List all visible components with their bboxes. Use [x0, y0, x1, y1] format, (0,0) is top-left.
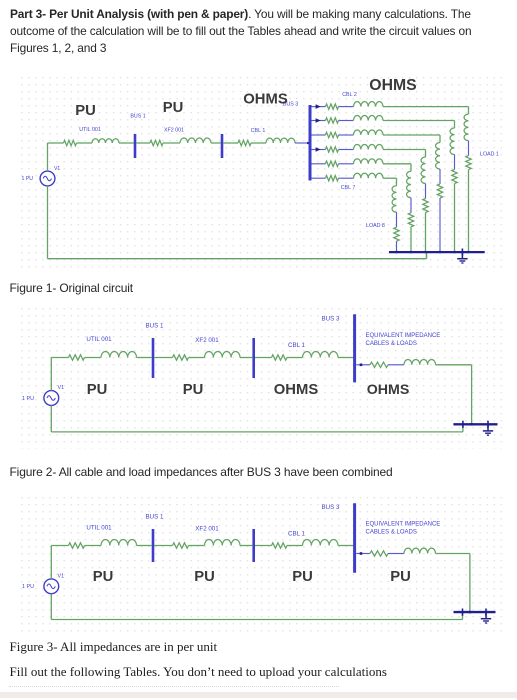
- figure 1 junction on neutral bar: [439, 251, 441, 253]
- figure 1 wire source to main line: [47, 143, 49, 171]
- figure 1 load resistor branch 6: [394, 227, 399, 241]
- figure 2 wire equivalent impedance to drop: [436, 364, 472, 366]
- svg-text:V1: V1: [54, 166, 60, 172]
- figure 1 inductor CBL 7: [354, 173, 384, 178]
- figure 1 junction on neutral bar: [453, 251, 455, 253]
- figure 1 wire BUS 3 to CBL 7: [312, 177, 326, 179]
- figure 3 resistor CBL 1: [272, 543, 287, 548]
- figure 3 wire drop to neutral bar: [469, 554, 471, 613]
- figure 1 junction on neutral bar: [467, 251, 469, 253]
- figure 1 wire: [223, 142, 238, 144]
- svg-text:EQUIVALENT IMPEDANCE: EQUIVALENT IMPEDANCE: [366, 333, 441, 339]
- figure 3 ground: [481, 609, 491, 624]
- figure 1 inductor XF2 001: [180, 138, 211, 143]
- figure 1 wire: [136, 142, 150, 144]
- figure 2 wire: [240, 357, 252, 359]
- figure 1 load inductor branch 1: [464, 114, 468, 140]
- figure 3 bus BUS 3: [353, 503, 356, 573]
- svg-text:PU: PU: [87, 382, 108, 398]
- figure 1 resistor CBL 6: [326, 161, 339, 166]
- figure 1 load resistor branch 2: [452, 170, 457, 184]
- figure 1 wire CBL 3 horizontal run: [383, 120, 455, 122]
- figure 2 return riser: [462, 424, 464, 432]
- svg-text:UTIL 001: UTIL 001: [86, 525, 112, 532]
- figure 1 bus BUS 1: [134, 134, 137, 158]
- figure 2 inductor XF2 001: [205, 352, 241, 358]
- figure 1 bottom return wire: [48, 258, 427, 260]
- figure 3 wire: [137, 545, 152, 547]
- figure 3 wire: [255, 545, 272, 547]
- figure 1 wire: [251, 142, 266, 144]
- figure 3 inductor equivalent impedance: [404, 548, 436, 553]
- svg-text:UTIL 001: UTIL 001: [86, 336, 112, 343]
- figure 1 bus BUS 2: [221, 134, 224, 158]
- svg-text:CBL 1: CBL 1: [288, 342, 306, 349]
- svg-text:OHMS: OHMS: [369, 77, 416, 94]
- figure 1 wire BUS 3 to CBL 4: [312, 134, 326, 136]
- svg-text:PU: PU: [194, 569, 215, 585]
- figure 2 voltage source V1: [44, 391, 59, 406]
- svg-text:PU: PU: [93, 569, 114, 585]
- svg-text:1 PU: 1 PU: [22, 396, 34, 402]
- svg-text:1 PU: 1 PU: [22, 176, 34, 182]
- figure 1 resistor CBL 1: [238, 140, 251, 145]
- figure 1 wire to neutral bar: [454, 184, 456, 252]
- figure 2 wire main segment: [51, 357, 68, 359]
- figure 1 wire CBL 6 bend down: [410, 164, 412, 172]
- svg-text:1 PU: 1 PU: [22, 584, 34, 590]
- figure 2 inductor CBL 1: [303, 352, 339, 358]
- svg-text:OHMS: OHMS: [367, 382, 410, 398]
- figure 2 wire: [287, 357, 303, 359]
- figure 1 load inductor branch 6: [392, 186, 396, 212]
- svg-text:V1: V1: [58, 385, 65, 391]
- figure 1 inductor CBL 1: [266, 138, 295, 143]
- figure 1 wire: [339, 177, 354, 179]
- figure 1 inductor CBL 6: [354, 159, 384, 164]
- figure 1 wire to neutral bar: [468, 170, 470, 252]
- svg-text:PU: PU: [390, 569, 411, 585]
- svg-text:BUS 1: BUS 1: [146, 514, 164, 521]
- figure 1 bus BUS 3: [309, 105, 312, 181]
- figure 1 inductor CBL 5: [354, 145, 384, 150]
- figure 1 wire BUS 3 to CBL 3: [312, 120, 326, 122]
- svg-text:CBL 1: CBL 1: [251, 128, 266, 134]
- svg-text:LOAD 1: LOAD 1: [480, 152, 499, 158]
- figure 3 wire source down: [50, 594, 52, 620]
- figure 3 wire: [362, 553, 370, 555]
- figure 2 bus BUS 3: [353, 314, 356, 382]
- figure 1 load inductor branch 2: [450, 128, 454, 154]
- figure 3 wire main segment: [51, 545, 68, 547]
- svg-text:XF2 001: XF2 001: [195, 337, 219, 344]
- figure 1 resistor CBL 3: [326, 118, 339, 123]
- figure 1 wire to neutral bar: [439, 198, 441, 251]
- figure 1 junction on neutral bar: [395, 251, 397, 253]
- figure 3 neutral bar: [454, 611, 496, 613]
- svg-text:OHMS: OHMS: [274, 382, 319, 398]
- figure 2 wire source down: [50, 405, 52, 432]
- figure 1 wire: [339, 106, 354, 108]
- figure 1 load resistor branch 3: [437, 184, 442, 198]
- figure 2 resistor CBL 1: [272, 355, 287, 360]
- figure 2 wire: [255, 357, 272, 359]
- figure 1 load resistor branch 5: [408, 213, 413, 227]
- figure 3 junction after BUS 3: [356, 553, 362, 555]
- figure 2 ground: [483, 421, 493, 436]
- figure 1 load inductor branch 3: [436, 143, 440, 169]
- figure 1 wire CBL 3 bend down: [454, 121, 456, 129]
- figure 1 wire: [339, 149, 354, 151]
- figure 1 wire main line segment A: [48, 142, 64, 144]
- figure 1 return riser to neutral bar: [426, 252, 428, 259]
- figure 1 wire CBL 2 bend down: [468, 107, 470, 115]
- figure 3 inductor UTIL 001: [101, 540, 137, 546]
- svg-text:LOAD 8: LOAD 8: [366, 223, 385, 229]
- figure 2 junction after BUS 3: [356, 364, 362, 366]
- figure 1 wire CBL 6 horizontal run: [383, 163, 411, 165]
- figure 1 wire CBL 7 horizontal run: [383, 177, 397, 179]
- figure 1 neutral bar: [389, 251, 485, 253]
- svg-text:PU: PU: [292, 569, 313, 585]
- svg-text:BUS 1: BUS 1: [130, 114, 145, 120]
- figure 3 resistor XF2 001: [173, 543, 189, 548]
- figure 1 junction on neutral bar: [410, 251, 412, 253]
- figure 3 wire equivalent impedance to drop: [436, 553, 470, 555]
- figure 1 wire CBL 5 horizontal run: [383, 149, 426, 151]
- figure 2 inductor equivalent impedance: [404, 359, 436, 364]
- figure 3 wire: [85, 545, 102, 547]
- svg-text:PU: PU: [163, 100, 184, 116]
- figure 1 load resistor branch 4: [423, 199, 428, 213]
- figure 1 junction arrow CBL 3: [316, 118, 321, 123]
- figure 1 wire: [396, 212, 398, 227]
- figure 1 wire source down: [47, 186, 49, 259]
- figure 1 inductor CBL 4: [354, 130, 384, 135]
- figure 1 load inductor branch 5: [407, 171, 411, 197]
- figure 3 wire: [189, 545, 205, 547]
- figure 1 wire CBL 4 bend down: [439, 135, 441, 143]
- figure 2 wire: [137, 357, 152, 359]
- svg-text:XF2 001: XF2 001: [164, 128, 184, 134]
- svg-text:BUS 1: BUS 1: [146, 323, 164, 330]
- svg-text:PU: PU: [75, 103, 96, 119]
- figure 1 resistor CBL 2: [326, 104, 339, 109]
- figure 1 junction at BUS 3: [307, 142, 309, 144]
- figure 2 junction drop: [470, 423, 473, 426]
- figure 1 wire: [119, 142, 134, 144]
- svg-text:BUS 3: BUS 3: [322, 504, 340, 511]
- figure 1 load resistor branch 1: [466, 156, 471, 170]
- figure 3 neutral bar tick left: [462, 609, 464, 616]
- figure 3 wire: [154, 545, 172, 547]
- figure 3 wire: [240, 545, 252, 547]
- figure 2 neutral bar: [453, 423, 497, 425]
- figure 1 wire BUS 3 to CBL 6: [312, 163, 326, 165]
- figure 1 resistor XF2 001: [150, 140, 163, 145]
- figure 1 wire: [339, 134, 354, 136]
- svg-text:OHMS: OHMS: [243, 92, 288, 108]
- figure 1 junction arrow CBL 2: [316, 104, 321, 109]
- figure 2 wire to BUS 3: [338, 357, 353, 359]
- figure 1 voltage source V1: [40, 171, 55, 186]
- figure 1 load inductor branch 4: [421, 157, 425, 183]
- figure 3 wire source to main: [50, 546, 52, 579]
- figure 2 wire: [362, 364, 370, 366]
- figure 1 resistor CBL 5: [326, 147, 339, 152]
- figure 2 wire drop to neutral bar: [471, 365, 473, 425]
- figure 1 inductor UTIL 001: [92, 139, 119, 143]
- figure 1 wire: [77, 142, 93, 144]
- figure 1 wire: [339, 163, 354, 165]
- figure 3 wire: [287, 545, 303, 547]
- figure 2 resistor XF2 001: [173, 355, 189, 360]
- svg-text:PU: PU: [183, 382, 204, 398]
- figure 1 wire: [439, 169, 441, 184]
- figure 1 wire CBL 4 horizontal run: [383, 134, 440, 136]
- svg-text:XF2 001: XF2 001: [195, 526, 219, 533]
- figure 3 voltage source V1: [44, 579, 59, 594]
- figure 3 bus BUS 1: [152, 529, 155, 562]
- figure 2 bus BUS 2: [252, 338, 255, 378]
- figure 1 wire CBL 5 bend down: [425, 150, 427, 158]
- figure 1 resistor CBL 4: [326, 132, 339, 137]
- figure 3 resistor UTIL 001: [69, 543, 85, 548]
- figure 1 wire: [468, 141, 470, 156]
- svg-text:CABLES & LOADS: CABLES & LOADS: [366, 530, 417, 536]
- figure 1 wire to neutral bar: [410, 227, 412, 251]
- figure 3 bottom return wire: [51, 619, 462, 621]
- figure 2 resistor equivalent impedance: [370, 362, 388, 367]
- figure 1 inductor CBL 2: [354, 102, 384, 107]
- figure 1 wire: [211, 142, 221, 144]
- svg-text:CBL 1: CBL 1: [288, 531, 306, 538]
- svg-text:CABLES & LOADS: CABLES & LOADS: [366, 341, 417, 347]
- figure 2 neutral bar tick left: [462, 421, 464, 428]
- figure 1 wire: [425, 184, 427, 199]
- figure 3 junction drop: [469, 611, 472, 614]
- figure 1 wire CBL 7 bend down: [396, 178, 398, 186]
- svg-text:EQUIVALENT IMPEDANCE: EQUIVALENT IMPEDANCE: [366, 522, 441, 528]
- figure 2 wire: [388, 364, 404, 366]
- figure 1 wire: [339, 120, 354, 122]
- figure 2 wire source to main: [50, 358, 52, 391]
- figure 1 resistor UTIL 001: [64, 140, 77, 145]
- figure 2 bottom return wire: [51, 431, 463, 433]
- figure 1 wire: [163, 142, 180, 144]
- figure 1 wire: [410, 198, 412, 213]
- figure 3 inductor CBL 1: [303, 540, 339, 546]
- figure 3 inductor XF2 001: [205, 540, 241, 546]
- svg-text:V1: V1: [58, 574, 65, 580]
- figure 2 bus BUS 1: [152, 338, 155, 378]
- figure 2 wire: [85, 357, 102, 359]
- svg-text:UTIL 001: UTIL 001: [79, 127, 101, 133]
- figure 2 resistor UTIL 001: [69, 355, 85, 360]
- figure 3 bus BUS 2: [252, 529, 255, 562]
- svg-text:CBL 2: CBL 2: [342, 92, 357, 98]
- figure 1 inductor CBL 3: [354, 116, 384, 121]
- figure 3 wire to BUS 3: [338, 545, 353, 547]
- figure 1 resistor CBL 7: [326, 176, 339, 181]
- figure 3 resistor equivalent impedance: [370, 551, 388, 556]
- figure 2 inductor UTIL 001: [101, 352, 137, 358]
- figure 2 wire: [189, 357, 205, 359]
- figure 1 ground: [457, 249, 467, 264]
- figure 1 wire CBL 2 horizontal run: [383, 106, 469, 108]
- svg-text:BUS 3: BUS 3: [322, 315, 340, 322]
- figure 3 return riser: [462, 612, 464, 619]
- figure 1 wire to neutral bar: [396, 241, 398, 251]
- figure 1 junction arrow CBL 5: [316, 147, 321, 152]
- figure 1 wire to neutral bar: [425, 213, 427, 252]
- figure 2 wire: [154, 357, 172, 359]
- figure 1 wire: [454, 155, 456, 170]
- figure 1 wire to BUS 3: [295, 142, 309, 144]
- figure 1 junction on neutral bar: [424, 251, 426, 253]
- svg-text:CBL 7: CBL 7: [341, 185, 356, 191]
- figure 1 wire BUS 3 to CBL 2: [312, 106, 326, 108]
- figure 3 wire: [388, 553, 404, 555]
- figure 1 wire BUS 3 to CBL 5: [312, 149, 326, 151]
